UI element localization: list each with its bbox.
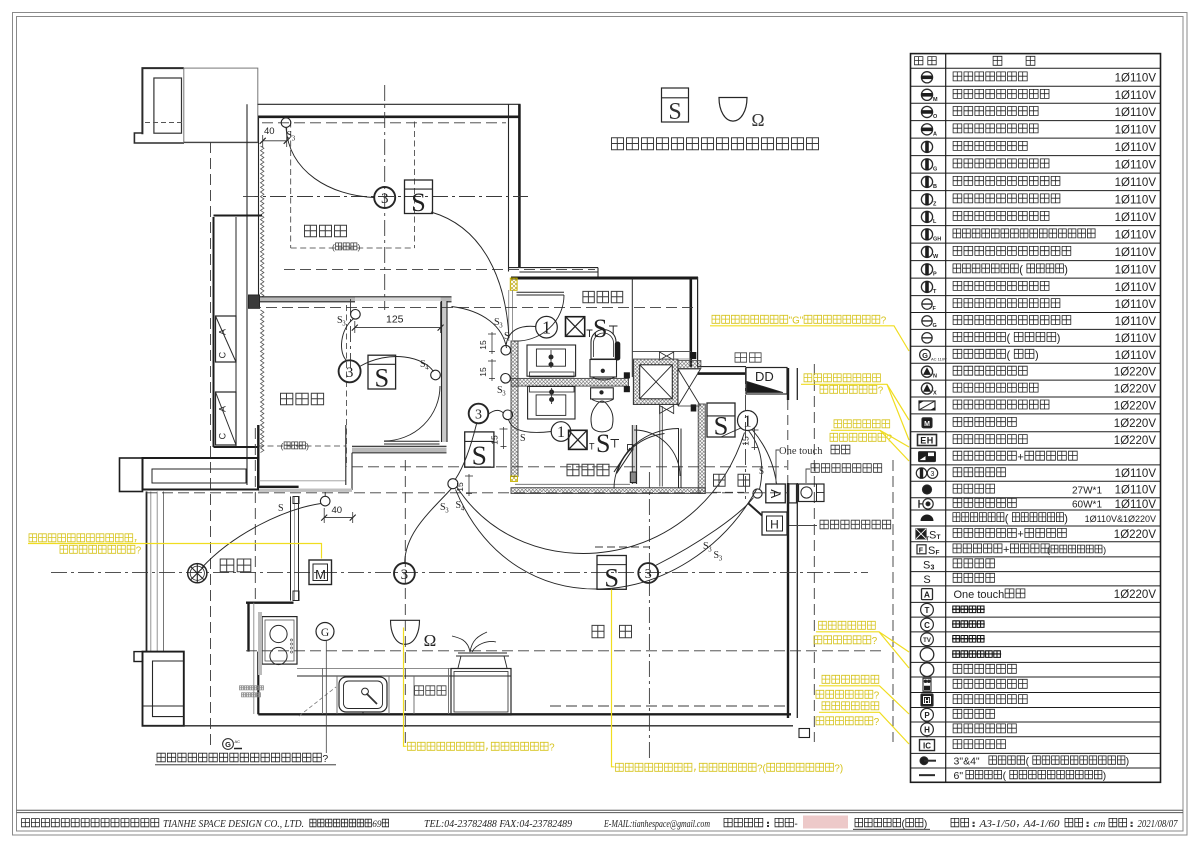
ceiling dashed y307 bbox=[250, 306, 698, 308]
room label living bbox=[592, 625, 632, 637]
legend row 21: 全熱式交換器 bbox=[922, 417, 1156, 429]
dim 40 hall bbox=[321, 505, 356, 523]
ledge light box bbox=[184, 68, 258, 142]
legend row 5: 接地型暗雙插座 bbox=[921, 141, 1156, 154]
svg-text:M: M bbox=[933, 97, 938, 103]
yellow note not seen C bbox=[816, 702, 909, 744]
indoor unit label bbox=[789, 520, 891, 529]
svg-text:A3-1/50: A3-1/50 bbox=[978, 819, 1015, 830]
master bedroom right wall bbox=[509, 104, 520, 271]
svg-text:?: ? bbox=[878, 386, 884, 397]
legend row 35: 電視插座 bbox=[921, 633, 985, 646]
wire living circled3 to entry bbox=[656, 498, 754, 566]
svg-text:): ) bbox=[358, 242, 361, 252]
master bedroom top wall bbox=[258, 104, 521, 117]
svg-text:3: 3 bbox=[346, 365, 354, 381]
svg-text:B: B bbox=[933, 184, 937, 190]
svg-text:Ω: Ω bbox=[424, 631, 437, 650]
legend row 4: 接地型炊飯器專插 bbox=[921, 124, 1156, 138]
svg-text:S: S bbox=[504, 331, 510, 342]
svg-text:O: O bbox=[933, 114, 938, 120]
svg-text:cm: cm bbox=[1094, 819, 1106, 830]
door cam label bbox=[806, 464, 882, 483]
grid dash vertical x405 bbox=[404, 460, 406, 744]
svg-text:?): ?) bbox=[834, 764, 843, 775]
grid dash vertical x210 bbox=[210, 142, 212, 745]
wire living switch up to corridor circled3 bbox=[456, 424, 477, 479]
svg-text:125: 125 bbox=[386, 314, 404, 326]
S box entry bbox=[707, 403, 735, 440]
svg-text:1Ø220V: 1Ø220V bbox=[1114, 418, 1157, 430]
svg-text:(: ( bbox=[902, 819, 906, 830]
ceiling dashed y651 bbox=[246, 650, 881, 652]
svg-text:S: S bbox=[593, 314, 607, 343]
top annotation bowl bbox=[719, 98, 747, 122]
S box corridor bbox=[465, 432, 494, 470]
svg-text:G: G bbox=[933, 166, 937, 172]
svg-text:1Ø110V&1Ø220V: 1Ø110V&1Ø220V bbox=[1085, 514, 1156, 524]
bath1 speaker S with T marks bbox=[587, 314, 618, 343]
svg-text:?: ? bbox=[549, 743, 555, 754]
ceiling dashed y706 bbox=[550, 705, 786, 707]
svg-text:One touch: One touch bbox=[779, 446, 823, 457]
circled 3 living right bbox=[638, 563, 658, 583]
svg-text:TEL:04-23782488 FAX:04-237824: TEL:04-23782488 FAX:04-23782489 bbox=[424, 819, 572, 830]
legend row 44: 排煙管罩 (不銹鋼製顏色配合立面) bbox=[919, 770, 1106, 782]
wall pier at entry bbox=[789, 484, 797, 503]
svg-text:3: 3 bbox=[502, 391, 506, 398]
bed2 dashed lines bbox=[258, 305, 347, 467]
grid dash vertical x814 bbox=[813, 364, 815, 742]
svg-text:?: ? bbox=[881, 316, 887, 327]
svg-text:4: 4 bbox=[425, 365, 429, 372]
svg-text:1Ø110V: 1Ø110V bbox=[1115, 124, 1157, 136]
A box one-touch bbox=[766, 484, 786, 503]
west wall insulation zigzag bbox=[261, 146, 264, 298]
entry small dashes bbox=[595, 492, 744, 547]
svg-text:C: C bbox=[924, 621, 930, 630]
entry door swing bbox=[614, 429, 681, 489]
svg-text:1Ø110V: 1Ø110V bbox=[1115, 159, 1157, 171]
svg-text:1Ø220V: 1Ø220V bbox=[1114, 589, 1157, 601]
svg-text:(: ( bbox=[332, 242, 335, 252]
svg-text:4: 4 bbox=[461, 506, 465, 513]
svg-text:1: 1 bbox=[542, 317, 551, 337]
wire bed1 Sbox to bath bbox=[431, 212, 509, 338]
legend row 42: 公設對講機 bbox=[920, 740, 1006, 751]
bath2 speaker S with T marks bbox=[589, 429, 619, 458]
bath west hatched wall bbox=[511, 341, 518, 477]
svg-text:1Ø110V: 1Ø110V bbox=[1115, 229, 1157, 241]
svg-text:15: 15 bbox=[478, 340, 488, 350]
bath block top wall thick bbox=[511, 277, 698, 280]
svg-text:): ) bbox=[1064, 513, 1068, 525]
svg-text:+: + bbox=[1003, 544, 1009, 556]
H box indoor unit bbox=[762, 512, 787, 535]
wire living switch to circled3 left bbox=[405, 489, 452, 564]
ceiling dashed bedroom1 top bbox=[262, 122, 506, 124]
svg-text:1Ø110V: 1Ø110V bbox=[1115, 90, 1157, 102]
svg-text:W: W bbox=[933, 254, 939, 260]
dishwasher dashed diagonal bbox=[299, 687, 336, 716]
svg-text:3: 3 bbox=[475, 408, 482, 423]
dim 40 top bbox=[260, 126, 290, 147]
svg-text:A4-1/60: A4-1/60 bbox=[1022, 819, 1059, 830]
shaft bottom bowtie bbox=[660, 406, 674, 414]
svg-text:A: A bbox=[218, 406, 228, 412]
legend row 31: 暗單開關 bbox=[923, 573, 994, 585]
legend row 22: 電能熱水器出口 bbox=[918, 435, 1157, 448]
centerline dashdot vertical x384 bbox=[384, 85, 386, 310]
svg-text:S: S bbox=[278, 503, 284, 514]
svg-text:Ω: Ω bbox=[751, 110, 764, 130]
balcony beam top bbox=[120, 458, 259, 492]
svg-text:(: ( bbox=[1007, 333, 1011, 345]
right wall door opening dashed bbox=[787, 400, 789, 483]
svg-text:1Ø110V: 1Ø110V bbox=[1115, 107, 1157, 119]
svg-text:1: 1 bbox=[557, 424, 565, 441]
entry door leaf diagonal bbox=[749, 504, 763, 516]
room label balcony bbox=[220, 559, 251, 572]
svg-text:3"&4": 3"&4" bbox=[954, 756, 980, 768]
west wall insulation zigzag lower bbox=[261, 310, 264, 453]
svg-text:15: 15 bbox=[478, 367, 488, 377]
bath2 exhaust fan box bbox=[569, 430, 587, 449]
svg-text:): ) bbox=[1057, 333, 1061, 345]
wall joint block bed corner bbox=[249, 295, 260, 308]
svg-text:N: N bbox=[933, 374, 937, 380]
svg-text:S: S bbox=[929, 529, 936, 541]
circled 3 bedroom2 bbox=[339, 360, 361, 382]
black squares right of shaft bbox=[691, 352, 697, 359]
ledge inner short dashed line bbox=[145, 122, 182, 124]
svg-text:S: S bbox=[668, 99, 681, 125]
svg-text:T: T bbox=[589, 442, 595, 452]
top annotation text bbox=[612, 138, 819, 150]
wire bed1 S3 to circled3 bbox=[286, 128, 374, 198]
svg-text:+: + bbox=[1017, 451, 1023, 463]
bedroom divider wall bbox=[259, 297, 452, 302]
legend row 29: 浴廁排風扇+控制開關 bbox=[917, 544, 1106, 557]
svg-text:C: C bbox=[218, 351, 228, 358]
bath central hatched wall bbox=[511, 378, 629, 386]
bath1 west door frame lines bbox=[509, 290, 513, 341]
legend row 25: 陽台崁燈 bbox=[922, 484, 1156, 496]
bath1 door leaf and swing bbox=[513, 292, 564, 341]
bed1 dashed rect bbox=[291, 122, 415, 249]
right wall (east) upper segment bbox=[788, 368, 797, 400]
svg-text:3: 3 bbox=[381, 191, 389, 207]
svg-text:M: M bbox=[315, 567, 326, 582]
svg-text:?: ? bbox=[874, 691, 880, 702]
svg-text:(: ( bbox=[1005, 513, 1009, 525]
svg-text:1Ø110V: 1Ø110V bbox=[1115, 177, 1157, 189]
circled 1 bath1 bbox=[536, 316, 558, 338]
svg-text:6": 6" bbox=[954, 770, 964, 782]
switch S3 circle bedroom1 bbox=[281, 118, 291, 128]
wire entry circled1 to sbox bbox=[721, 428, 741, 437]
yellow note not seen D upper bbox=[830, 420, 909, 461]
svg-text:EH: EH bbox=[920, 436, 934, 446]
legend row 20: 分離式冷氣機出線口 bbox=[919, 400, 1156, 412]
legend row 2: 接地型洗烘衣機專插 bbox=[921, 89, 1156, 103]
wire living big arc B bbox=[457, 433, 745, 554]
svg-text:15: 15 bbox=[741, 436, 751, 446]
wire hall40 circle stem bbox=[324, 492, 326, 496]
svg-text:H: H bbox=[924, 698, 929, 705]
svg-text:1Ø110V: 1Ø110V bbox=[1115, 194, 1157, 206]
G circle kitchen bbox=[316, 623, 334, 641]
small switch circle entry bbox=[753, 489, 762, 498]
diagonal void marks right of shaft bbox=[678, 369, 701, 406]
svg-text:15: 15 bbox=[490, 435, 500, 445]
svg-text:F: F bbox=[919, 547, 924, 554]
svg-text:S: S bbox=[520, 433, 526, 444]
legend row 6: 接地型浴室暗雙插座 bbox=[921, 159, 1156, 173]
svg-text:IC: IC bbox=[923, 741, 931, 750]
grid dash vertical x893 bbox=[892, 460, 894, 742]
shaft west thin wall bbox=[632, 278, 691, 377]
svg-text:3: 3 bbox=[401, 567, 409, 583]
svg-text:3: 3 bbox=[931, 564, 935, 571]
legend row 39: 住戶保全室內機 bbox=[921, 694, 1027, 706]
balcony planter bottom-left bbox=[134, 652, 184, 726]
svg-text:+: + bbox=[1017, 529, 1023, 541]
svg-text:2021/08/07: 2021/08/07 bbox=[1138, 819, 1179, 830]
svg-text:?(: ?( bbox=[757, 764, 766, 775]
svg-text:TIANHE SPACE DESIGN CO., LTD.: TIANHE SPACE DESIGN CO., LTD. bbox=[163, 819, 304, 830]
legend row 1: 接地型廚房專插 bbox=[921, 72, 1156, 85]
plant above cabinet bbox=[452, 632, 509, 668]
bath1 exhaust fan box bbox=[566, 317, 585, 337]
legend row 34: 資訊插座 bbox=[921, 618, 985, 631]
svg-text:1Ø220V: 1Ø220V bbox=[1114, 367, 1157, 379]
svg-text:A: A bbox=[924, 590, 930, 600]
svg-text:M: M bbox=[924, 421, 930, 428]
svg-text:H: H bbox=[770, 518, 779, 532]
svg-text:S: S bbox=[928, 545, 935, 557]
svg-text:"G": "G" bbox=[789, 316, 804, 327]
svg-text:3: 3 bbox=[445, 508, 449, 515]
legend row 10: 接地型瓦斯熱水器與強制排氣插座 bbox=[921, 229, 1156, 243]
svg-text:H: H bbox=[924, 726, 930, 735]
legend row 30: 暗雙開關 bbox=[923, 559, 995, 571]
svg-text:T: T bbox=[925, 606, 930, 615]
redaction blur box bbox=[803, 816, 848, 829]
circled 3 bath corridor bbox=[469, 404, 489, 424]
shaft inner X bbox=[640, 365, 673, 399]
laundry area second line bbox=[632, 358, 691, 360]
title bar company text bbox=[22, 819, 711, 830]
svg-text:?: ? bbox=[874, 717, 880, 728]
circled 1 entry bbox=[738, 411, 758, 431]
legend row 38: 住戶保全門口機 bbox=[923, 678, 1027, 691]
svg-text:1Ø220V: 1Ø220V bbox=[1114, 384, 1157, 396]
svg-text:): ) bbox=[1035, 350, 1039, 362]
svg-text:TV: TV bbox=[923, 638, 931, 644]
kitchen tiny gray note bbox=[240, 686, 264, 697]
AC niche west wall bbox=[214, 216, 263, 448]
svg-text:(: ( bbox=[281, 441, 284, 451]
bath1 toilet bbox=[590, 329, 620, 380]
right wall (east) lower segment bbox=[788, 483, 797, 718]
AC ledge top-left outer bbox=[134, 68, 184, 143]
hatched band right of shaft bbox=[678, 361, 701, 369]
S box living bbox=[597, 556, 626, 593]
S4 switch circle bedroom2 bbox=[431, 370, 441, 380]
wire balcony switch to fan bbox=[202, 504, 321, 568]
ceiling dashed y493 bbox=[146, 492, 788, 494]
svg-text:G: G bbox=[933, 323, 937, 329]
svg-text:): ) bbox=[1126, 757, 1129, 768]
annotation G symbol bottom bbox=[223, 739, 242, 750]
annotation text bottom bbox=[155, 753, 336, 765]
legend row 28: 多功能暖風機+控制開關 bbox=[916, 528, 1156, 542]
svg-text:1Ø110V: 1Ø110V bbox=[1115, 350, 1157, 362]
kitchen counter lines bbox=[258, 612, 511, 714]
legend row 12: 宅內配線箱插座 (緊急電源) bbox=[921, 264, 1156, 278]
svg-text:1Ø110V: 1Ø110V bbox=[1115, 485, 1157, 497]
svg-text:1: 1 bbox=[743, 411, 752, 430]
title bar separator double line bbox=[17, 809, 1184, 811]
svg-text:A: A bbox=[933, 131, 937, 137]
legend row 17: 瓦斯偵測器 (欣中) bbox=[920, 349, 1157, 361]
central wall end black squares bbox=[624, 372, 630, 378]
svg-text:C: C bbox=[218, 432, 228, 439]
svg-text:DD: DD bbox=[755, 369, 774, 384]
legend row 33: 電話插座 bbox=[921, 603, 985, 616]
One touch label bbox=[776, 445, 850, 483]
legend row 11: 接地型防水型插座附蓋板 bbox=[921, 246, 1156, 260]
centerline dashdot horizontal y196 bbox=[243, 196, 528, 198]
wire living big arc C bbox=[456, 490, 757, 590]
switch circle living S3S4 bbox=[448, 479, 458, 489]
legend table grid bbox=[911, 54, 1161, 783]
shaft hatched ring bbox=[633, 359, 678, 404]
svg-text:A: A bbox=[768, 489, 783, 498]
bedroom2 east wall (door side) bbox=[442, 301, 448, 442]
svg-text:1Ø110V: 1Ø110V bbox=[1115, 212, 1157, 224]
bedroom2 door leaf and swing bbox=[384, 386, 440, 444]
yellow note legend G bbox=[710, 315, 909, 351]
yellow note left full-heat exchanger bbox=[28, 534, 322, 559]
corridor door swing bbox=[452, 307, 507, 349]
svg-text:G: G bbox=[321, 627, 329, 639]
svg-text:(: ( bbox=[1026, 757, 1030, 768]
svg-text:T: T bbox=[937, 534, 941, 541]
svg-text:1Ø220V: 1Ø220V bbox=[1114, 400, 1157, 412]
partition wall bath2 east second bbox=[660, 406, 663, 487]
entry west hatched wall bbox=[698, 404, 705, 494]
svg-text:69: 69 bbox=[372, 820, 382, 830]
svg-text:S: S bbox=[596, 429, 610, 458]
fan symbol balcony bbox=[188, 564, 207, 583]
switch S3 circle bedroom2 bbox=[351, 310, 361, 320]
switch circle hall40 bbox=[320, 496, 330, 506]
dim 15 group bath wall bbox=[478, 332, 496, 354]
legend row 43: 排煙管罩 (不銹鋼製顏色配合立面) bbox=[920, 756, 1129, 768]
shaft top bowtie bbox=[660, 352, 674, 360]
balcony sliding door bbox=[291, 497, 300, 601]
svg-text:1Ø110V: 1Ø110V bbox=[1115, 468, 1157, 480]
room label bedroom2 bbox=[281, 393, 324, 405]
top annotation S box bbox=[662, 88, 689, 125]
bedroom2 southwest corner wall bbox=[258, 425, 352, 492]
svg-text:G: G bbox=[922, 351, 928, 360]
svg-text:3: 3 bbox=[292, 136, 296, 143]
wire bath corridor connections bbox=[488, 410, 552, 432]
svg-text:): ) bbox=[306, 441, 309, 451]
svg-text:1Ø110V: 1Ø110V bbox=[1115, 299, 1157, 311]
svg-text:40: 40 bbox=[332, 505, 343, 516]
room label bath2 bbox=[567, 464, 609, 476]
S box bedroom2 bbox=[368, 355, 396, 392]
svg-text:AC: AC bbox=[235, 739, 241, 744]
legend row 15: 接地型免治馬桶暗單插座 bbox=[922, 316, 1157, 329]
legend header bbox=[915, 56, 1035, 65]
svg-text:S: S bbox=[714, 410, 729, 440]
legend row 3: 接地型微波爐專插 bbox=[921, 106, 1156, 120]
svg-text:S: S bbox=[923, 559, 930, 571]
svg-text:(: ( bbox=[1007, 350, 1011, 362]
svg-text:(: ( bbox=[1003, 771, 1007, 782]
room label entry bbox=[714, 474, 750, 486]
svg-text:1Ø110V: 1Ø110V bbox=[1115, 247, 1157, 259]
bath south hatched wall bbox=[511, 488, 705, 494]
bath2 shower door diagonal bbox=[614, 445, 633, 474]
legend row 9: 接地型檯面暗雙插座 bbox=[921, 211, 1156, 225]
centerline dashdot vertical x745 bbox=[745, 368, 747, 500]
svg-text:1Ø220V: 1Ø220V bbox=[1114, 435, 1157, 447]
legend row 18: 接地型烤箱專插 bbox=[921, 366, 1156, 380]
svg-text:1Ø110V: 1Ø110V bbox=[1115, 264, 1157, 276]
legend row 40: 磁簧開關 bbox=[921, 708, 995, 721]
stove cooktop bbox=[262, 617, 297, 665]
svg-text:1Ø110V: 1Ø110V bbox=[1115, 316, 1157, 328]
svg-text:): ) bbox=[924, 819, 927, 830]
legend row 7: 接地型洗碗機暗雙插座 bbox=[921, 176, 1156, 190]
leader line kitchen G bbox=[325, 641, 327, 753]
bath door yellow box top bbox=[510, 278, 517, 290]
circled 1 bath2 bbox=[551, 422, 571, 442]
small black box near yellow3 bbox=[799, 729, 810, 738]
title bar project name bbox=[724, 818, 798, 830]
label appliance cabinet bbox=[415, 686, 446, 695]
yellow note not seen B bbox=[816, 675, 909, 714]
dim 15 entry bbox=[741, 428, 759, 450]
room label electrical bbox=[735, 353, 761, 362]
svg-text:G: G bbox=[225, 740, 231, 749]
svg-text:S: S bbox=[472, 439, 487, 470]
svg-text:60W*1: 60W*1 bbox=[1072, 500, 1102, 511]
DD box with triangle bbox=[746, 368, 787, 395]
door camera box bbox=[799, 484, 825, 502]
wire bed2 S3 to circled3 bbox=[342, 319, 354, 361]
svg-text:S: S bbox=[411, 188, 426, 217]
circled 3 bedroom1 bbox=[374, 187, 395, 208]
bath2 door swing arcs bbox=[618, 430, 681, 476]
legend row 32: One touch bbox=[922, 589, 1157, 602]
yellow note two legend symbols fan bbox=[801, 374, 909, 440]
bath block top wall upper lines bbox=[509, 268, 599, 278]
A/C unit box 2 bbox=[216, 392, 237, 445]
svg-text:A: A bbox=[218, 329, 228, 335]
svg-text:3: 3 bbox=[931, 471, 935, 478]
A/C unit box 1 bbox=[216, 316, 237, 362]
svg-text:15: 15 bbox=[455, 482, 465, 492]
svg-text:1Ø110V: 1Ø110V bbox=[1115, 282, 1157, 294]
bath2 vanity counter bbox=[528, 386, 575, 419]
